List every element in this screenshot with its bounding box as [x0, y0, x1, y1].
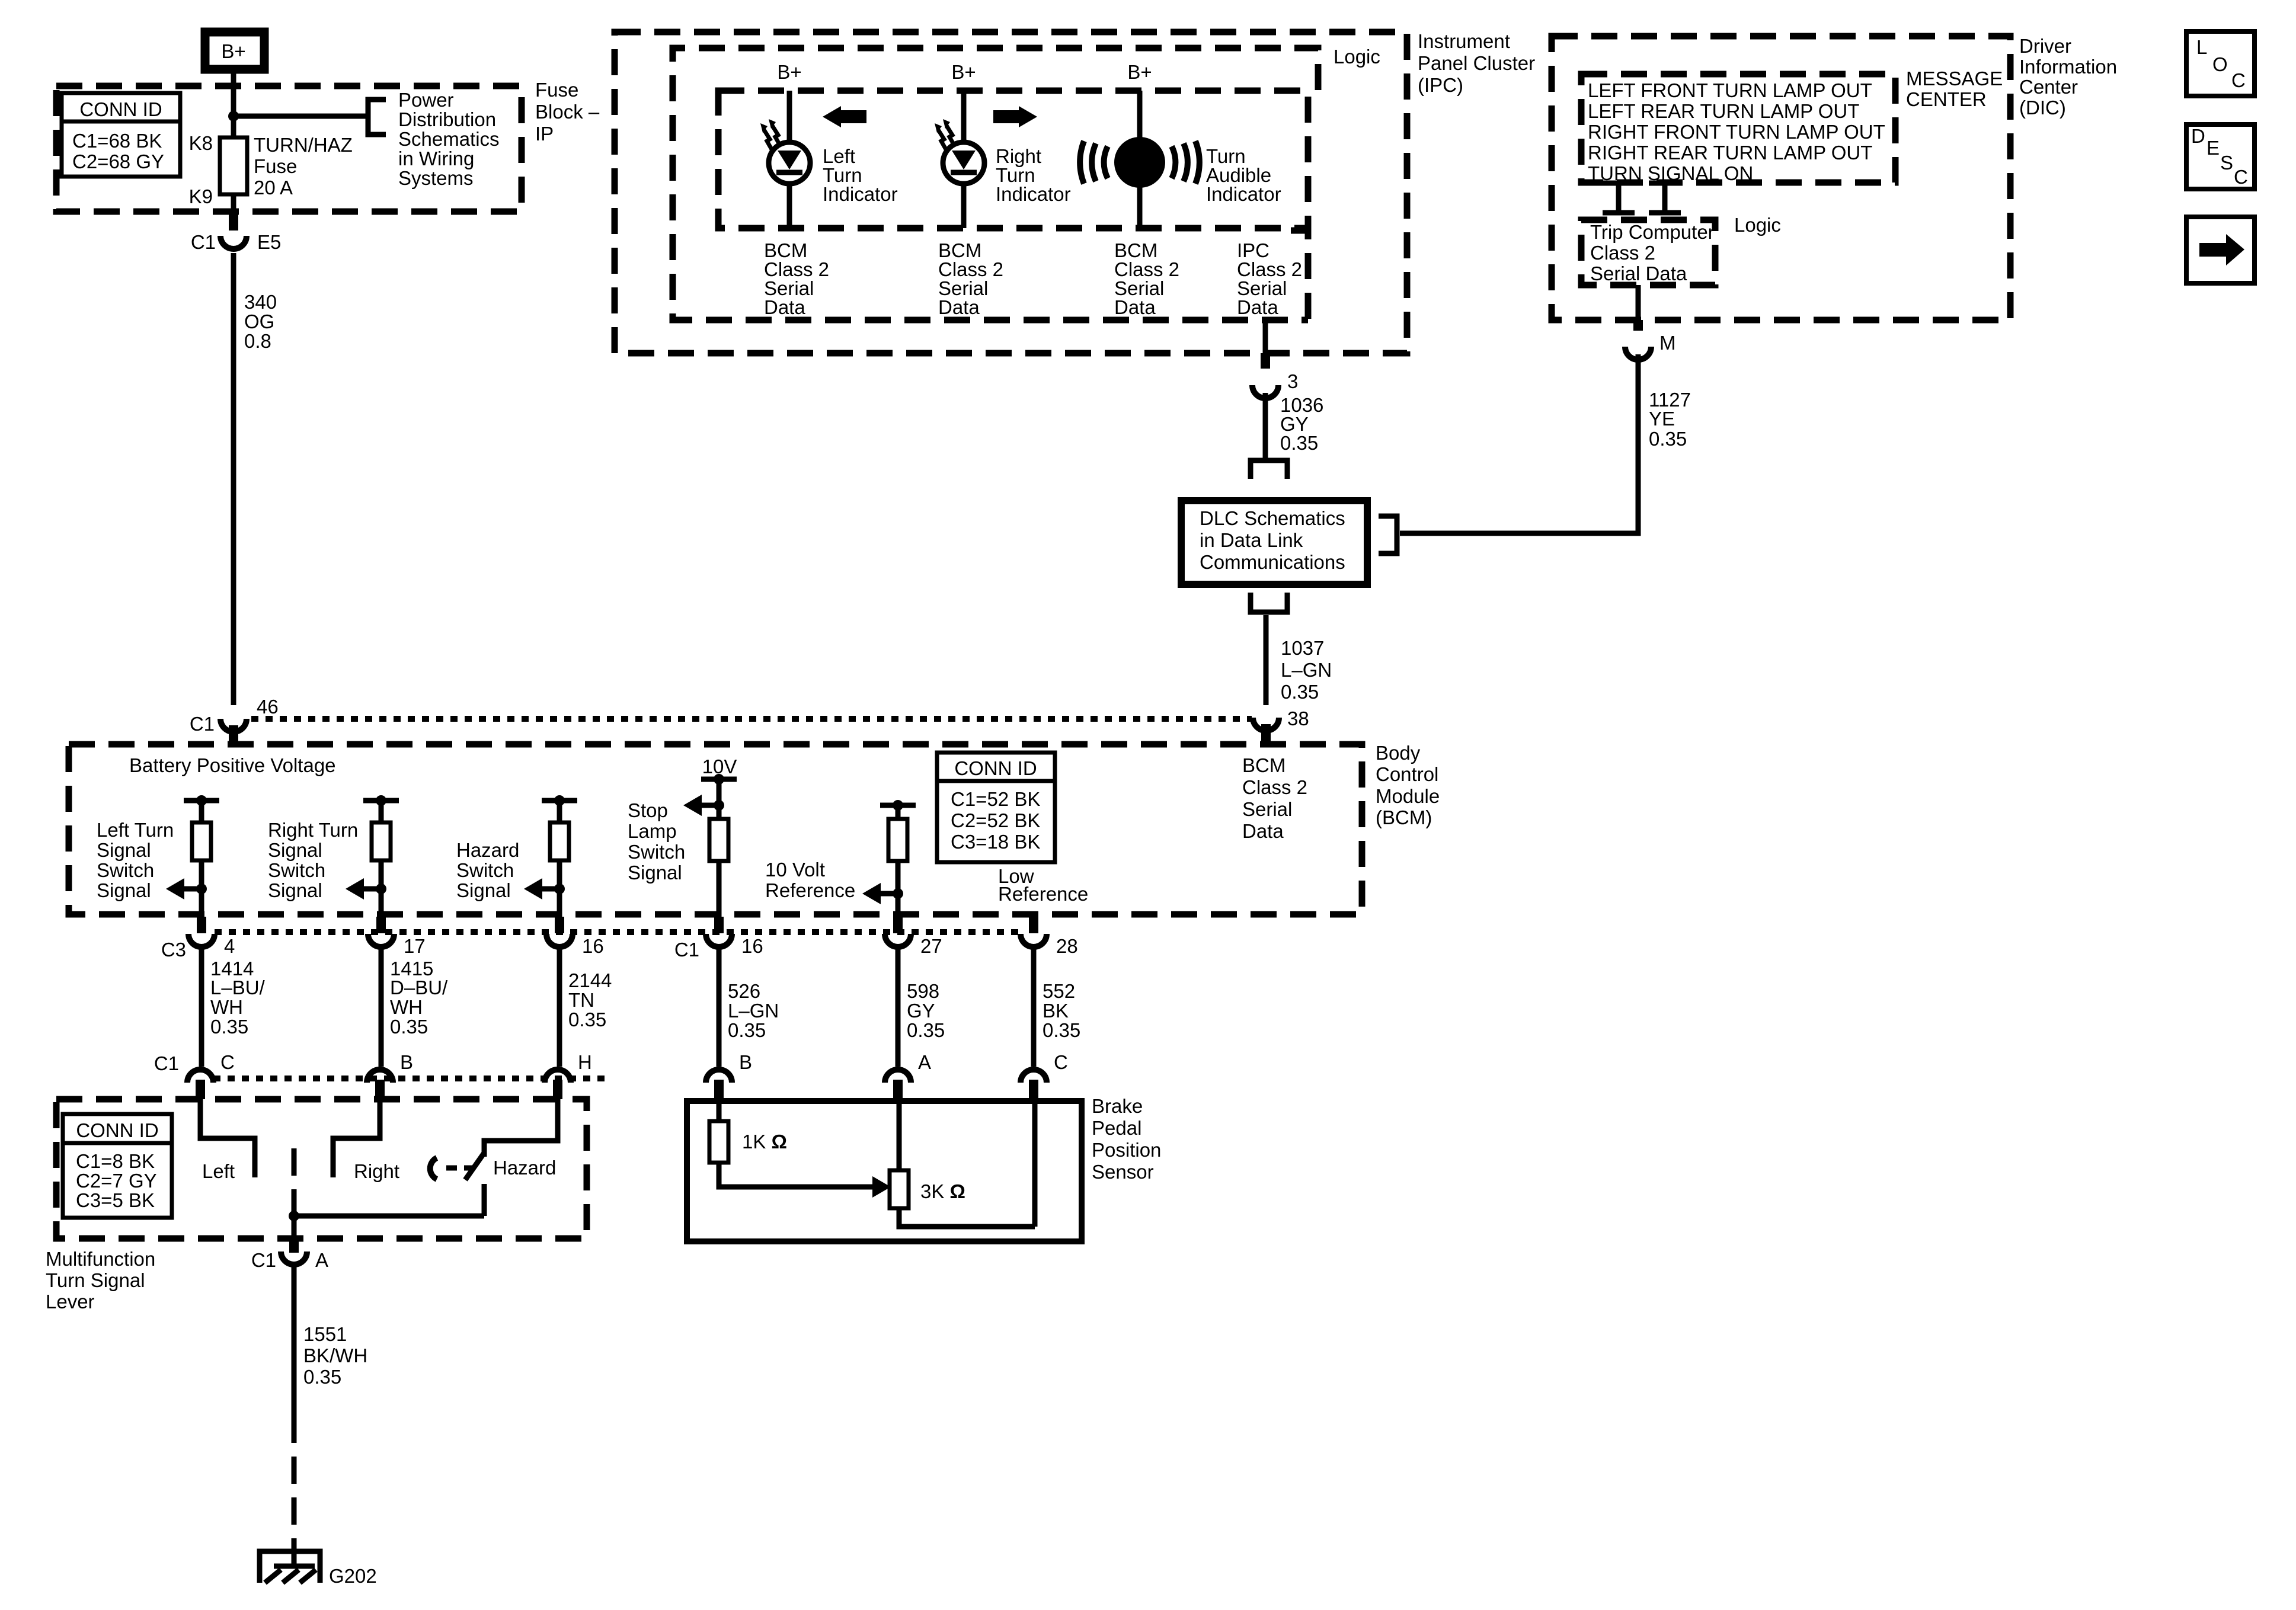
potentiometer R 3K [890, 1170, 909, 1208]
label Body Control Module (BCM) [1376, 742, 1440, 828]
connector 3 arc [1252, 385, 1278, 398]
label Driver Information Center (DIC) [2019, 35, 2117, 119]
svg-text:0.35: 0.35 [568, 1009, 606, 1030]
speaker sound arcs [1080, 141, 1200, 184]
wire [199, 801, 204, 822]
svg-text:Signal: Signal [97, 879, 151, 901]
10 volt ref top bar [880, 803, 916, 808]
wire 2144 TN 0.35 [557, 945, 562, 1067]
svg-text:Signal: Signal [456, 879, 511, 901]
DLC bottom bracket [1251, 593, 1287, 612]
wire 1036 GY 0.35 [1263, 393, 1268, 459]
junction [289, 1211, 299, 1221]
label BCM Class 2 Serial Data (audible) [1114, 239, 1179, 318]
svg-text:Communications: Communications [1200, 551, 1345, 573]
junction [893, 888, 903, 899]
wire [896, 805, 901, 819]
IPC outer dashed box [615, 32, 1407, 353]
svg-text:0.35: 0.35 [1649, 428, 1687, 450]
label Stop Lamp Switch Signal [628, 799, 685, 884]
svg-text:C1=68 BK: C1=68 BK [72, 130, 162, 152]
svg-text:Lamp: Lamp [628, 820, 677, 842]
svg-text:0.35: 0.35 [1281, 681, 1319, 703]
wire [379, 860, 384, 917]
svg-text:C: C [1054, 1051, 1068, 1073]
svg-text:BK/WH: BK/WH [303, 1345, 367, 1366]
arrow right turn signal [346, 878, 381, 900]
wire [717, 779, 722, 819]
hazard mechanical link dashes [446, 1166, 474, 1171]
wire [557, 801, 562, 822]
svg-text:Trip Computer: Trip Computer [1590, 221, 1715, 243]
svg-text:Switch: Switch [268, 859, 325, 881]
wire left switch contact [200, 1099, 255, 1177]
svg-text:S: S [2220, 152, 2233, 174]
wire 1127 YE 0.35 [1400, 354, 1638, 533]
svg-text:M: M [1659, 332, 1676, 354]
Trip Computer dashed box [1581, 220, 1715, 285]
wire brake C down [1032, 1101, 1038, 1227]
wire 1414 L-BU/WH 0.35 [199, 945, 204, 1067]
svg-text:B: B [400, 1051, 413, 1073]
svg-text:E5: E5 [257, 231, 281, 253]
svg-text:Systems: Systems [398, 167, 474, 189]
svg-text:Instrument: Instrument [1418, 30, 1510, 52]
svg-text:O: O [2212, 53, 2228, 75]
svg-text:B+: B+ [221, 40, 245, 62]
svg-text:552: 552 [1043, 980, 1075, 1002]
label 10 Volt Reference [765, 859, 855, 901]
label 1551 BK/WH 0.35 [303, 1323, 367, 1388]
connector pin 28 arc [1021, 934, 1047, 947]
junction [196, 795, 207, 806]
svg-text:17: 17 [404, 935, 426, 957]
svg-text:Data: Data [1114, 296, 1156, 318]
wire [557, 860, 562, 917]
svg-text:G202: G202 [329, 1565, 377, 1587]
icon box DESC [2186, 124, 2255, 189]
svg-text:Reference: Reference [998, 883, 1088, 905]
svg-text:Body: Body [1376, 742, 1421, 764]
connector C1 pin C arc [187, 1070, 213, 1083]
svg-text:526: 526 [728, 980, 760, 1002]
label Brake Pedal Position Sensor [1092, 1095, 1161, 1183]
svg-text:Indicator: Indicator [823, 183, 898, 205]
label 526 L-GN 0.35 [728, 980, 779, 1041]
svg-text:BK: BK [1043, 1000, 1069, 1022]
DLC right bracket [1379, 516, 1397, 553]
svg-text:Data: Data [764, 296, 805, 318]
svg-text:Center: Center [2019, 76, 2078, 98]
svg-text:38: 38 [1287, 708, 1309, 729]
svg-text:C1: C1 [251, 1249, 276, 1271]
MESSAGE CENTER dashed box [1581, 74, 1895, 183]
svg-text:L: L [2196, 36, 2207, 58]
svg-text:Brake: Brake [1092, 1095, 1143, 1117]
svg-text:Reference: Reference [765, 879, 855, 901]
svg-text:in Data Link: in Data Link [1200, 529, 1303, 551]
connector C1 pin A arc [281, 1251, 307, 1265]
LED right turn indicator [943, 142, 984, 184]
svg-text:Data: Data [1242, 820, 1284, 842]
connector pin 17 arc [368, 934, 394, 947]
label Hazard Switch Signal [456, 839, 519, 901]
svg-text:0.35: 0.35 [728, 1019, 766, 1041]
svg-text:Turn Signal: Turn Signal [46, 1269, 145, 1291]
svg-text:D–BU/: D–BU/ [390, 977, 448, 998]
svg-text:Fuse: Fuse [254, 155, 297, 177]
svg-text:A: A [315, 1249, 328, 1271]
B+ power symbol [205, 32, 264, 69]
svg-text:WH: WH [210, 996, 243, 1018]
connector row C3/C1 stubs [197, 914, 1038, 933]
svg-text:1037: 1037 [1281, 637, 1324, 659]
svg-text:C1: C1 [190, 713, 215, 735]
svg-text:10 Volt: 10 Volt [765, 859, 825, 881]
svg-text:LEFT FRONT TURN LAMP OUT: LEFT FRONT TURN LAMP OUT [1588, 79, 1872, 101]
svg-text:L–GN: L–GN [1281, 659, 1332, 681]
svg-text:Left Turn: Left Turn [97, 819, 174, 841]
svg-text:Hazard: Hazard [493, 1157, 556, 1179]
svg-text:C1=8 BK: C1=8 BK [76, 1150, 155, 1172]
resistor 10 volt reference [888, 819, 907, 861]
junction node [228, 111, 239, 121]
svg-text:20 A: 20 A [254, 177, 293, 199]
wire [896, 861, 901, 917]
resistor hazard top bar [542, 798, 577, 804]
label Turn Audible Indicator [1206, 145, 1281, 205]
resistor R 1K [709, 1121, 728, 1163]
label 340 OG 0.8 [244, 291, 277, 352]
serial data sub-box right edge [1291, 231, 1308, 320]
svg-text:Class 2: Class 2 [1590, 242, 1655, 264]
wire left indicator [787, 91, 792, 228]
wire 3K bottom loop [899, 1208, 1035, 1227]
svg-text:1551: 1551 [303, 1323, 347, 1345]
svg-text:598: 598 [907, 980, 939, 1002]
svg-text:0.35: 0.35 [210, 1016, 248, 1038]
connector pin B arc [367, 1070, 393, 1083]
svg-text:Switch: Switch [97, 859, 154, 881]
svg-text:B+: B+ [951, 61, 976, 83]
connector B stub [375, 1080, 385, 1099]
svg-text:0.8: 0.8 [244, 330, 271, 352]
connector 38 stub [1261, 724, 1271, 744]
connector C3 pin 4 arc [188, 934, 215, 947]
label Trip Computer Class 2 Serial Data [1590, 221, 1715, 284]
svg-text:340: 340 [244, 291, 277, 313]
svg-text:WH: WH [390, 996, 423, 1018]
link stub message center to logic 2 [1649, 183, 1681, 213]
connector 3 stub [1261, 353, 1270, 369]
junction [714, 774, 724, 785]
wire 598 GY 0.35 [896, 945, 901, 1067]
svg-text:Multifunction: Multifunction [46, 1248, 155, 1270]
brake pedal position sensor box [687, 1101, 1082, 1241]
connector brake pin A arc [885, 1070, 911, 1083]
junction [376, 884, 386, 894]
wire [199, 860, 204, 917]
svg-text:GY: GY [907, 1000, 935, 1022]
connector C stub [196, 1080, 205, 1099]
svg-text:CONN ID: CONN ID [76, 1119, 158, 1141]
svg-text:C2=52 BK: C2=52 BK [951, 809, 1040, 831]
svg-text:(IPC): (IPC) [1418, 74, 1463, 96]
wire 526 L-GN 0.35 [717, 945, 722, 1067]
svg-text:16: 16 [582, 935, 604, 957]
svg-text:Lever: Lever [46, 1291, 95, 1313]
right turn arrow symbol [993, 106, 1037, 127]
svg-text:MESSAGE: MESSAGE [1906, 68, 2003, 89]
svg-text:4: 4 [224, 935, 235, 957]
svg-text:Information: Information [2019, 56, 2117, 78]
switch common wire [294, 1214, 484, 1219]
label 1037 L-GN 0.35 [1281, 637, 1332, 703]
link stub message center to logic 1 [1603, 183, 1635, 213]
connector C1 E5 arc [220, 236, 247, 249]
junction [196, 884, 207, 894]
svg-text:C3=5 BK: C3=5 BK [76, 1189, 155, 1211]
wire IPC serial data out [1263, 321, 1268, 367]
connector brake C stub [1029, 1080, 1038, 1101]
junction [893, 800, 903, 811]
svg-text:46: 46 [257, 696, 279, 718]
icon box arrow [2186, 217, 2255, 283]
label IPC Class 2 Serial Data [1237, 239, 1302, 318]
resistor stop lamp [709, 819, 728, 861]
DLC schematics box [1181, 501, 1367, 584]
multifunction turn signal lever dashed box [56, 1099, 587, 1238]
label 1414 L-BU/ WH 0.35 [210, 958, 266, 1038]
label BCM Class 2 Serial Data (right) [938, 239, 1003, 318]
stop lamp top bar [701, 777, 737, 782]
svg-text:(DIC): (DIC) [2019, 97, 2066, 119]
svg-text:C2=68 GY: C2=68 GY [72, 151, 164, 172]
label Fuse Block - IP [535, 79, 600, 145]
svg-text:CONN ID: CONN ID [79, 98, 162, 120]
svg-text:L–BU/: L–BU/ [210, 977, 266, 998]
indicator dashed box [718, 91, 1308, 228]
svg-text:B: B [739, 1051, 752, 1073]
svg-text:C3=18 BK: C3=18 BK [951, 831, 1040, 853]
svg-text:Indicator: Indicator [1206, 183, 1281, 205]
svg-text:RIGHT FRONT TURN LAMP OUT: RIGHT FRONT TURN LAMP OUT [1588, 121, 1885, 143]
svg-text:Driver: Driver [2019, 35, 2071, 57]
svg-text:0.35: 0.35 [303, 1366, 341, 1388]
svg-text:16: 16 [741, 935, 763, 957]
wire 552 BK 0.35 [1031, 945, 1037, 1067]
wire 1551 BK/WH 0.35 [292, 1265, 297, 1416]
label 1127 YE 0.35 [1649, 389, 1691, 450]
label Right Turn Signal Switch Signal [268, 819, 358, 901]
DLC top bracket [1251, 460, 1287, 479]
connector M stub [1633, 320, 1643, 331]
connector brake B stub [714, 1080, 724, 1101]
svg-text:Logic: Logic [1334, 46, 1380, 68]
connector H stub [553, 1080, 562, 1099]
connector C1 46 arc [220, 719, 247, 732]
connector brake pin C arc [1021, 1070, 1047, 1083]
CONN ID table (BCM) [937, 753, 1055, 862]
message center text lines [1588, 79, 1885, 184]
svg-text:CONN ID: CONN ID [954, 757, 1037, 779]
resistor left turn signal [192, 822, 211, 860]
svg-text:27: 27 [920, 935, 942, 957]
label Left Turn Indicator [823, 145, 898, 205]
ground G202 [260, 1544, 320, 1583]
connector C1 pin 16 arc [706, 934, 732, 947]
connector pin 16 arc [546, 934, 573, 947]
svg-text:1K Ω: 1K Ω [742, 1131, 787, 1153]
wire [717, 861, 722, 917]
svg-text:C1: C1 [154, 1052, 179, 1074]
svg-text:2144: 2144 [568, 969, 612, 991]
svg-text:Signal: Signal [268, 879, 322, 901]
label Power Distribution Schematics [398, 89, 500, 189]
svg-text:Right: Right [354, 1160, 399, 1182]
BCM dashed box [69, 744, 1362, 914]
resistor hazard switch [550, 822, 569, 860]
svg-text:Signal: Signal [628, 862, 682, 884]
svg-text:C1: C1 [674, 939, 699, 961]
svg-text:B+: B+ [1127, 61, 1152, 83]
svg-text:Control: Control [1376, 763, 1438, 785]
connector C1 A stub [289, 1238, 299, 1253]
svg-text:C1=52 BK: C1=52 BK [951, 788, 1040, 810]
svg-text:Indicator: Indicator [996, 183, 1071, 205]
svg-text:C: C [220, 1051, 235, 1073]
svg-text:Battery Positive Voltage: Battery Positive Voltage [129, 754, 336, 776]
connector 38 arc [1253, 718, 1279, 731]
connector M arc [1625, 347, 1651, 360]
junction [714, 800, 724, 811]
svg-text:Distribution: Distribution [398, 108, 496, 130]
wire junction to power distribution bracket [234, 114, 367, 119]
LED left emission arrows [760, 119, 780, 149]
connector pin H arc [545, 1070, 571, 1083]
svg-text:IP: IP [535, 123, 554, 145]
switch blade hazard [465, 1152, 485, 1180]
label 1415 D-BU/ WH 0.35 [390, 958, 448, 1038]
label 2144 TN 0.35 [568, 969, 612, 1030]
icon box LOC [2186, 31, 2255, 96]
svg-text:0.35: 0.35 [1280, 432, 1318, 454]
svg-text:Panel Cluster: Panel Cluster [1418, 52, 1535, 74]
svg-text:LEFT REAR TURN LAMP OUT: LEFT REAR TURN LAMP OUT [1588, 100, 1859, 122]
resistor right turn top bar [363, 798, 399, 804]
Fuse Block - IP dashed box [56, 86, 522, 212]
wire right indicator [961, 91, 967, 228]
svg-text:Class 2: Class 2 [1242, 776, 1307, 798]
svg-text:Serial Data: Serial Data [1590, 263, 1687, 284]
power distribution bracket [368, 100, 386, 135]
label BCM Class 2 Serial Data (pin 38) [1242, 754, 1307, 842]
LED right emission arrows [935, 119, 954, 149]
svg-text:D: D [2191, 125, 2205, 147]
label BCM Class 2 Serial Data (left) [764, 239, 829, 318]
svg-text:B+: B+ [777, 61, 801, 83]
svg-text:C1: C1 [191, 231, 216, 253]
svg-text:C: C [2231, 69, 2246, 91]
svg-text:Schematics: Schematics [398, 128, 500, 150]
svg-text:Switch: Switch [628, 841, 685, 863]
svg-text:YE: YE [1649, 408, 1675, 430]
svg-text:Fuse: Fuse [535, 79, 578, 101]
resistor left turn top bar [184, 798, 219, 804]
svg-text:3: 3 [1287, 370, 1298, 392]
connector C1 E5 stub [229, 212, 238, 231]
label Instrument Panel Cluster (IPC) [1418, 30, 1535, 96]
wire brake A to 3K [897, 1101, 902, 1170]
junction [554, 884, 565, 894]
LED left turn indicator [769, 142, 810, 184]
dotted net line C3 row [215, 929, 1021, 935]
connector C1 46 stub [229, 725, 238, 745]
svg-text:CENTER: CENTER [1906, 88, 1987, 110]
CONN ID table (lever) [63, 1114, 172, 1218]
hazard detent arc [430, 1158, 437, 1179]
svg-text:TURN/HAZ: TURN/HAZ [254, 134, 353, 156]
junction [376, 795, 386, 806]
svg-text:H: H [578, 1051, 592, 1073]
wiper arrow into 3K [872, 1176, 891, 1198]
svg-text:Module: Module [1376, 785, 1440, 807]
left turn arrow symbol [823, 106, 866, 127]
svg-text:28: 28 [1056, 935, 1078, 957]
svg-text:Signal: Signal [97, 839, 151, 861]
wire common to connector A [292, 1216, 297, 1238]
svg-text:C: C [2234, 166, 2248, 188]
svg-text:BCM: BCM [1242, 754, 1285, 776]
connector brake pin B arc [706, 1070, 732, 1083]
label Multifunction Turn Signal Lever [46, 1248, 155, 1313]
arrow left turn signal [166, 878, 202, 900]
label Low Reference [998, 865, 1088, 905]
CONN ID table (fuse block) [62, 93, 180, 177]
dotted net line to BCM pin 38 [251, 716, 1252, 722]
svg-text:OG: OG [244, 311, 274, 332]
bottom connector row dotted net [213, 1076, 605, 1081]
wire fuse K9 to connector E5 [231, 194, 236, 213]
junction [554, 795, 565, 806]
svg-text:Switch: Switch [456, 859, 514, 881]
svg-text:Data: Data [1237, 296, 1278, 318]
resistor right turn signal [372, 822, 391, 860]
wire right switch contact [333, 1099, 380, 1177]
svg-text:DLC Schematics: DLC Schematics [1200, 507, 1345, 529]
svg-text:L–GN: L–GN [728, 1000, 779, 1022]
svg-text:in Wiring: in Wiring [398, 148, 474, 169]
connector pin 27 arc [885, 934, 911, 947]
svg-text:Sensor: Sensor [1092, 1161, 1154, 1183]
svg-text:TN: TN [568, 989, 594, 1011]
arrow hazard switch [524, 878, 559, 900]
svg-text:Stop: Stop [628, 799, 668, 821]
DIC outer dashed box [1552, 36, 2010, 320]
label MESSAGE CENTER [1906, 68, 2003, 110]
speaker turn audible indicator [1114, 137, 1165, 188]
svg-text:0.35: 0.35 [1043, 1019, 1080, 1041]
label 1036 GY 0.35 [1280, 394, 1323, 454]
wire 1415 D-BU/WH 0.35 [379, 945, 384, 1067]
svg-text:Pedal: Pedal [1092, 1117, 1141, 1139]
wire 1K to wiper arrow [719, 1163, 872, 1187]
arrow 10 volt reference [862, 883, 898, 904]
connector brake A stub [893, 1080, 903, 1101]
svg-text:Right Turn: Right Turn [268, 819, 358, 841]
svg-text:C3: C3 [161, 939, 186, 961]
wire DLC to BCM pin 38 [1264, 615, 1269, 705]
